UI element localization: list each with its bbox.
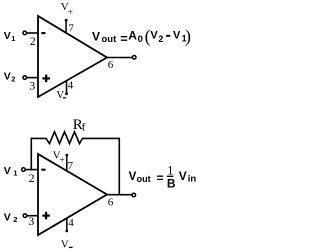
svg-text:B: B <box>167 177 176 191</box>
svg-text:f: f <box>82 122 86 134</box>
svg-text:V: V <box>4 211 11 223</box>
svg-text:V: V <box>179 169 187 183</box>
svg-text:A: A <box>128 29 137 43</box>
feedback right vertical wire <box>118 138 120 195</box>
svg-text:in: in <box>188 174 197 185</box>
svg-text:+: + <box>68 8 73 18</box>
terminal V2 (open circle) <box>23 214 27 218</box>
svg-text:V: V <box>4 165 11 177</box>
minus sign (inverting input) <box>41 169 45 171</box>
plus sign (non-inverting input) <box>42 215 50 217</box>
svg-text:2: 2 <box>30 34 36 48</box>
terminal Vout (open circle) <box>132 193 136 197</box>
terminal V1 (open circle) <box>22 168 26 172</box>
svg-text:): ) <box>185 26 191 47</box>
svg-text:2: 2 <box>29 171 35 185</box>
pin 4 supply stub and dot <box>66 81 68 94</box>
svg-text:V: V <box>150 30 158 42</box>
svg-text:V: V <box>4 30 11 42</box>
svg-text:V: V <box>173 30 181 42</box>
svg-text:V: V <box>4 70 11 82</box>
op-amp U2 triangle <box>38 154 107 235</box>
op-amp U1 triangle <box>38 16 107 97</box>
plus sign (non-inverting input) <box>42 77 50 79</box>
output wire (pin 6) <box>107 57 132 59</box>
svg-text:7: 7 <box>68 160 74 172</box>
svg-text:V: V <box>92 29 100 43</box>
svg-text:+: + <box>60 155 65 165</box>
svg-text:V: V <box>56 89 64 101</box>
svg-text:out: out <box>137 174 151 184</box>
terminal Vout (open circle) <box>132 56 136 60</box>
svg-text:2: 2 <box>11 74 15 83</box>
svg-text:2: 2 <box>13 215 17 224</box>
svg-text:4: 4 <box>68 79 74 91</box>
svg-text:=: = <box>120 31 128 46</box>
svg-text:2: 2 <box>158 34 163 44</box>
wire V1 to inverting input <box>26 169 38 171</box>
svg-text:6: 6 <box>108 59 114 71</box>
pin 7 supply stub and dot <box>65 19 68 22</box>
wire V2 to non-inverting input <box>27 215 38 217</box>
pin 4 supply stub and dot <box>66 218 68 231</box>
svg-text:V: V <box>61 238 69 250</box>
svg-text:3: 3 <box>29 78 35 92</box>
resistor Rf zigzag with feedback top wires <box>31 132 119 144</box>
svg-text:1: 1 <box>13 169 17 178</box>
terminal V2 (open circle) <box>23 76 27 80</box>
svg-text:6: 6 <box>108 197 114 209</box>
svg-text:0: 0 <box>138 34 143 45</box>
pin 7 supply stub and dot <box>65 154 68 157</box>
svg-text:=: = <box>157 171 164 185</box>
wire V1 to inverting input <box>27 32 38 34</box>
output wire (pin 6, bottom) <box>107 194 132 196</box>
svg-text:1: 1 <box>167 164 173 178</box>
svg-text:1: 1 <box>11 34 15 43</box>
minus sign (inverting input) <box>41 32 45 34</box>
svg-text:7: 7 <box>68 23 74 35</box>
svg-text:4: 4 <box>68 217 74 229</box>
terminal V1 (open circle) <box>23 31 27 35</box>
feedback left vertical wire <box>30 138 32 170</box>
svg-text:out: out <box>102 34 118 45</box>
wire V2 to non-inverting input <box>27 77 38 79</box>
svg-text:3: 3 <box>28 214 34 228</box>
svg-text:V: V <box>129 171 137 183</box>
